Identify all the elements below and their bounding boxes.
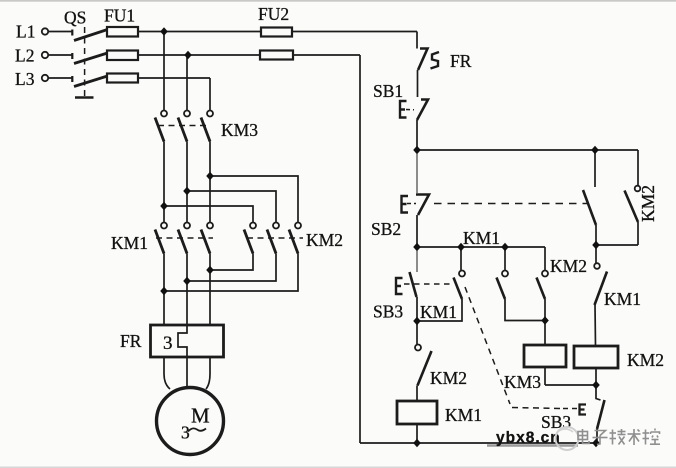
svg-text:SB1: SB1: [373, 81, 403, 101]
svg-text:FU1: FU1: [104, 6, 135, 26]
svg-text:ybx8.cn: ybx8.cn: [496, 430, 561, 447]
svg-text:KM1: KM1: [420, 302, 457, 322]
svg-text:3: 3: [181, 423, 190, 443]
svg-text:KM2: KM2: [550, 256, 587, 276]
svg-text:KM3: KM3: [221, 120, 258, 140]
svg-text:KM2: KM2: [627, 350, 664, 370]
svg-text:KM2: KM2: [638, 185, 658, 222]
svg-text:KM1: KM1: [111, 233, 148, 253]
svg-text:QS: QS: [64, 8, 86, 28]
svg-text:KM3: KM3: [504, 372, 541, 392]
svg-text:M: M: [191, 404, 210, 428]
svg-text:KM1: KM1: [463, 228, 500, 248]
svg-text:L2: L2: [15, 46, 34, 66]
svg-text:SB2: SB2: [371, 219, 401, 239]
svg-text:L3: L3: [15, 69, 35, 89]
svg-text:L1: L1: [16, 22, 35, 42]
svg-text:SB3: SB3: [373, 302, 403, 322]
svg-text:KM1: KM1: [604, 289, 641, 309]
svg-text:FR: FR: [450, 51, 472, 71]
svg-text:KM2: KM2: [430, 368, 467, 388]
svg-text:FU2: FU2: [258, 4, 289, 24]
svg-text:3: 3: [163, 333, 173, 354]
svg-text:FR: FR: [120, 331, 142, 351]
svg-text:KM2: KM2: [306, 230, 343, 250]
svg-text:KM1: KM1: [445, 405, 482, 425]
